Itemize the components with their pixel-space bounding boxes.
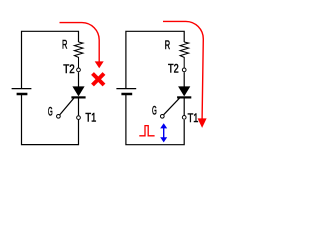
- svg-text:R: R: [62, 37, 68, 51]
- svg-text:G: G: [152, 104, 157, 118]
- svg-text:T1: T1: [188, 111, 199, 125]
- svg-text:T2: T2: [168, 62, 179, 76]
- svg-text:T1: T1: [85, 111, 96, 125]
- svg-text:T2: T2: [63, 62, 75, 76]
- svg-text:R: R: [165, 38, 171, 52]
- svg-text:G: G: [48, 105, 53, 119]
